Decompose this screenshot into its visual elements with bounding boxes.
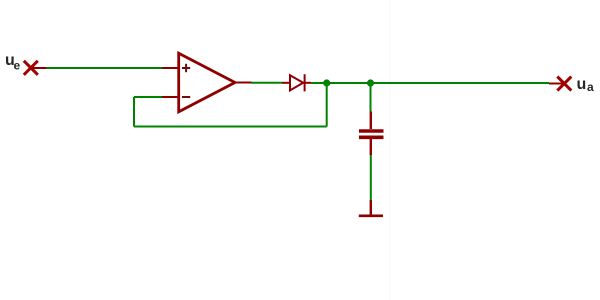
- wire junction to capacitor: [370, 83, 372, 112]
- ground symbol: [359, 215, 383, 218]
- diode D1 cathode pin: [305, 82, 311, 84]
- capacitor C1 top pin: [370, 112, 372, 130]
- wire capacitor to ground: [370, 155, 372, 200]
- ground pin: [370, 200, 372, 215]
- op-amp + input pin: [162, 67, 178, 69]
- wire op-amp output to diode: [252, 82, 283, 84]
- node ua label: [577, 76, 595, 94]
- svg-text:u: u: [577, 76, 587, 93]
- capacitor C1 bottom pin: [370, 139, 372, 155]
- terminal X (output ua): [557, 77, 571, 91]
- diode D1: [290, 74, 305, 91]
- wire feedback vertical from junction: [326, 83, 328, 127]
- page boundary line: [389, 0, 391, 300]
- terminal X (input ue): [24, 61, 38, 75]
- wire input net: [47, 67, 163, 69]
- op-amp U1 triangle: [179, 53, 235, 112]
- junction feedback node: [323, 79, 330, 86]
- svg-text:e: e: [14, 59, 21, 73]
- op-amp - mark: [182, 96, 190, 98]
- wire feedback left vertical: [133, 97, 135, 127]
- wire output net horizontal rail: [311, 82, 549, 84]
- capacitor C1 plates: [359, 131, 384, 137]
- wire feedback bottom horizontal: [134, 126, 327, 128]
- op-amp + mark: [182, 64, 190, 72]
- wire feedback to - input: [134, 96, 162, 98]
- junction capacitor node: [367, 79, 374, 86]
- op-amp - input pin: [162, 96, 178, 98]
- input terminal pin stub: [31, 67, 47, 69]
- node ue label: [5, 52, 21, 73]
- svg-text:a: a: [587, 80, 594, 94]
- output terminal pin stub: [549, 83, 564, 85]
- op-amp output pin: [237, 82, 252, 84]
- diode D1 anode pin: [282, 82, 290, 84]
